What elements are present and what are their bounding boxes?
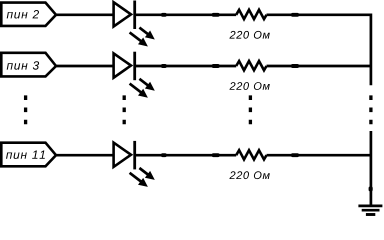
wire: resistor R1 to right bus, corner down: [267, 15, 371, 86]
LED D1: [114, 1, 155, 47]
LED D2: [114, 52, 155, 98]
junction: wire joint row3 a: [161, 153, 167, 157]
resistor R1: [236, 10, 266, 19]
pin label "пин 2": [1, 3, 56, 26]
wire: LED D2 to resistor R2: [135, 65, 237, 68]
LED D3: [114, 141, 155, 187]
wire: LED D1 to resistor R1: [135, 13, 237, 16]
value label 220 Ом (R3): [229, 171, 269, 179]
junction: wire joint row2 b: [212, 64, 220, 68]
wire: resistor R3 to right bus: [267, 154, 372, 157]
resistor R2: [236, 61, 266, 70]
junction: bus joint above ground: [369, 187, 373, 192]
dotted continuation: pin column: [24, 95, 27, 124]
pin label "пин 3": [1, 53, 56, 77]
wire: пин 3 to LED D2: [56, 65, 114, 68]
wire: пин 2 to LED D1: [56, 13, 114, 16]
dotted continuation: LED column: [123, 95, 126, 124]
junction: wire joint row1 a: [161, 13, 167, 17]
junction: wire joint row1 c: [291, 13, 299, 17]
value label 220 Ом (R2): [229, 82, 269, 90]
value label 220 Ом (R1): [229, 31, 269, 39]
ground: [358, 206, 382, 215]
wire: right bus lower segment to ground: [370, 131, 373, 205]
wire: пин 11 to LED D3: [56, 154, 114, 157]
wire: LED D3 to resistor R3: [135, 154, 237, 157]
junction: wire joint row3 b: [212, 153, 220, 157]
junction: wire joint row2 c: [291, 64, 299, 68]
dotted continuation: bus column: [369, 95, 372, 124]
junction: wire joint row2 a: [161, 64, 167, 68]
junction: wire joint row1 b: [212, 13, 220, 17]
junction: wire joint row3 c: [291, 153, 299, 157]
pin label "пин 11": [1, 143, 56, 167]
resistor R3: [236, 150, 266, 159]
wire: resistor R2 to right bus: [267, 65, 372, 68]
dotted continuation: resistor column: [249, 95, 252, 124]
